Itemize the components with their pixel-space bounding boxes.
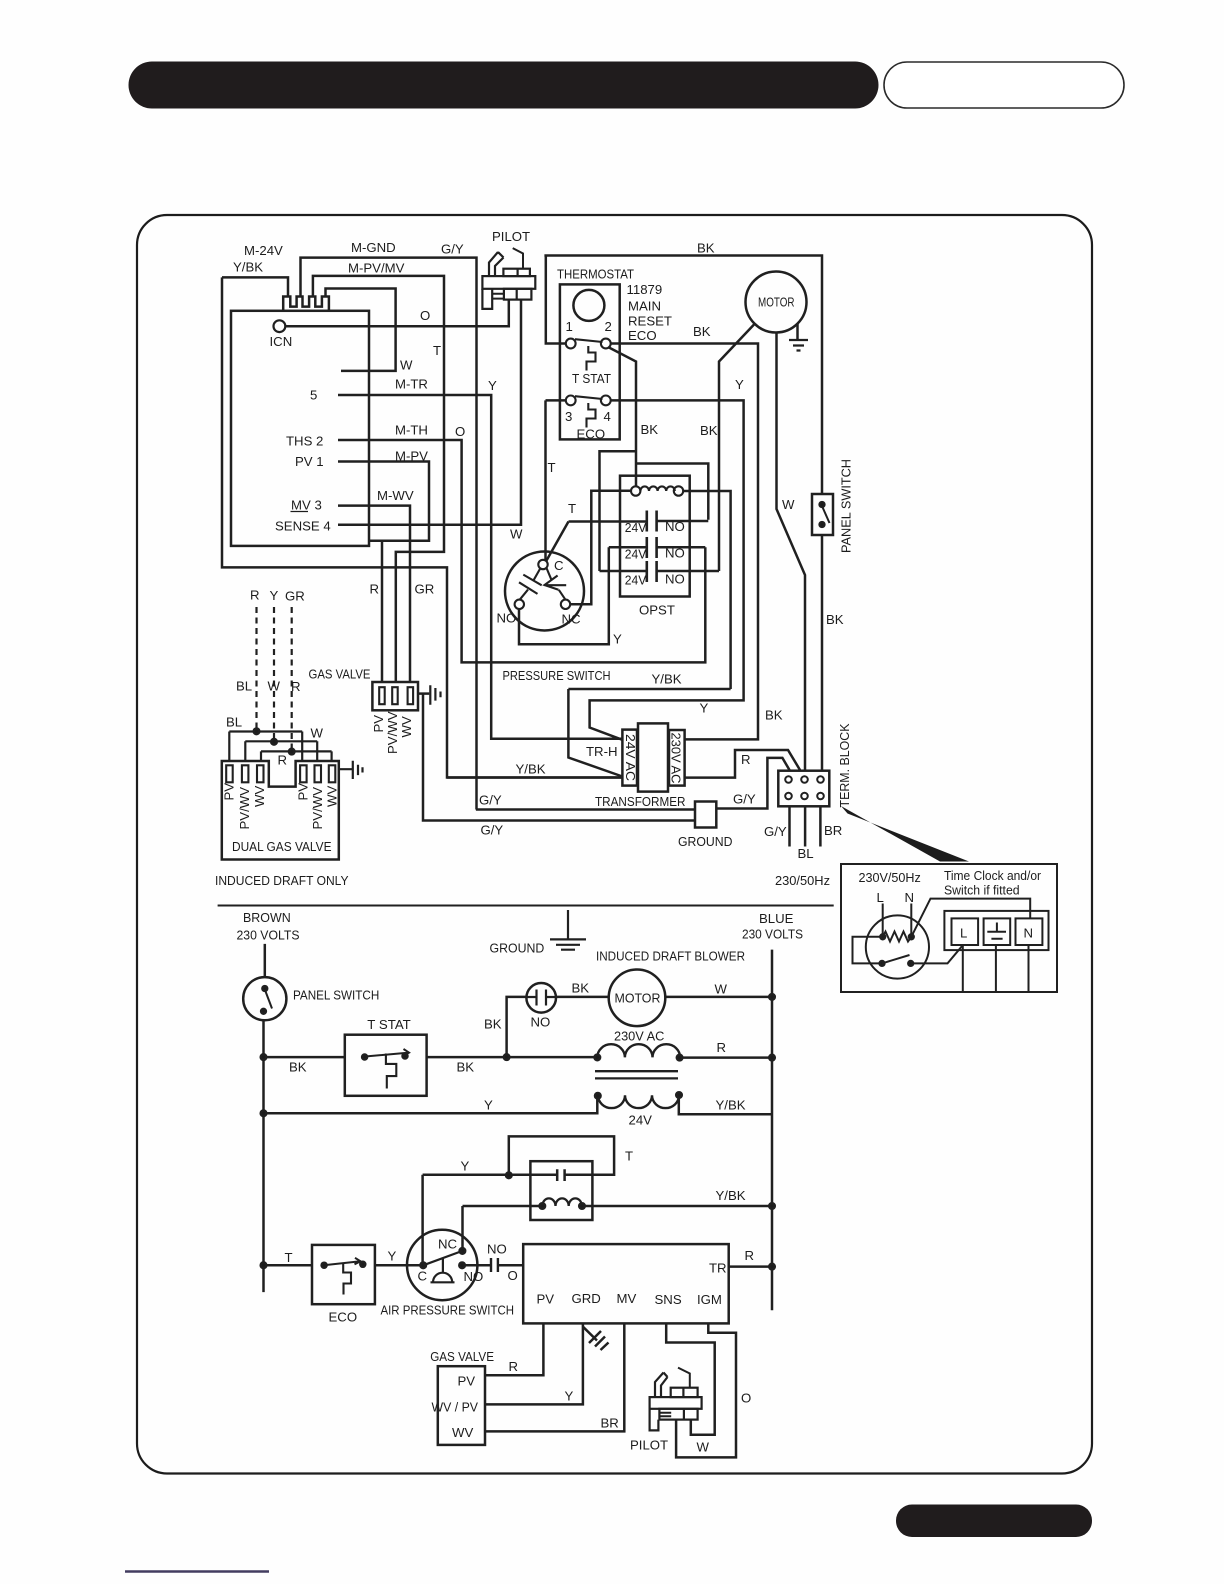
svg-text:TR: TR <box>709 1261 727 1276</box>
svg-text:Y: Y <box>565 1389 574 1404</box>
svg-text:BROWN: BROWN <box>243 910 291 925</box>
svg-text:230V/50Hz: 230V/50Hz <box>859 870 921 885</box>
svg-text:SNS: SNS <box>655 1292 682 1307</box>
svg-text:M-PV: M-PV <box>395 449 428 464</box>
svg-text:BK: BK <box>572 981 590 996</box>
svg-text:NC: NC <box>438 1237 458 1252</box>
svg-text:WV: WV <box>399 716 414 737</box>
svg-text:PV/WV: PV/WV <box>237 787 252 830</box>
svg-text:THERMOSTAT: THERMOSTAT <box>557 267 634 282</box>
svg-text:BK: BK <box>641 422 659 437</box>
svg-text:W: W <box>311 726 324 741</box>
svg-text:Time Clock and/or: Time Clock and/or <box>944 868 1042 883</box>
svg-text:Y: Y <box>700 701 709 716</box>
svg-text:PV: PV <box>222 783 237 801</box>
svg-text:RESET: RESET <box>628 314 672 329</box>
svg-text:INDUCED DRAFT ONLY: INDUCED DRAFT ONLY <box>215 873 349 888</box>
svg-text:2: 2 <box>605 319 612 334</box>
svg-text:GR: GR <box>285 589 305 604</box>
svg-text:ECO: ECO <box>577 427 606 442</box>
svg-text:NO: NO <box>464 1269 484 1284</box>
svg-text:SENSE 4: SENSE 4 <box>275 519 331 534</box>
svg-text:PV: PV <box>458 1374 476 1389</box>
svg-text:ECO: ECO <box>329 1310 358 1325</box>
svg-text:Y: Y <box>270 588 279 603</box>
svg-text:T: T <box>548 460 556 475</box>
svg-text:Y/BK: Y/BK <box>652 672 682 687</box>
svg-text:OPST: OPST <box>639 603 675 618</box>
svg-text:G/Y: G/Y <box>479 793 502 808</box>
svg-text:BK: BK <box>697 241 715 256</box>
svg-text:GROUND: GROUND <box>678 834 733 849</box>
svg-text:230V AC: 230V AC <box>669 733 684 784</box>
svg-text:Y/BK: Y/BK <box>716 1098 746 1113</box>
svg-text:BK: BK <box>457 1060 475 1075</box>
svg-text:Y/BK: Y/BK <box>716 1188 746 1203</box>
svg-text:NO: NO <box>487 1242 507 1257</box>
svg-text:24V: 24V <box>625 547 647 562</box>
svg-text:TERM. BLOCK: TERM. BLOCK <box>837 723 852 807</box>
svg-text:MV: MV <box>617 1291 637 1306</box>
svg-text:N: N <box>905 890 915 905</box>
svg-text:WV: WV <box>252 786 267 807</box>
svg-text:Y/BK: Y/BK <box>233 260 263 275</box>
svg-text:DUAL GAS VALVE: DUAL GAS VALVE <box>232 839 332 854</box>
svg-text:4: 4 <box>604 409 611 424</box>
svg-text:MOTOR: MOTOR <box>615 991 661 1006</box>
svg-text:M-PV/MV: M-PV/MV <box>348 261 405 276</box>
svg-text:24V: 24V <box>625 520 647 535</box>
svg-text:L: L <box>960 926 967 941</box>
svg-text:R: R <box>717 1040 727 1055</box>
svg-text:T: T <box>625 1149 633 1164</box>
svg-text:BK: BK <box>826 612 844 627</box>
svg-text:MOTOR: MOTOR <box>758 295 795 310</box>
svg-text:W: W <box>510 527 523 542</box>
svg-text:R: R <box>509 1359 519 1374</box>
svg-text:M-TH: M-TH <box>395 423 428 438</box>
svg-text:PRESSURE SWITCH: PRESSURE SWITCH <box>503 668 611 683</box>
svg-text:WV / PV: WV / PV <box>432 1400 479 1415</box>
svg-text:5: 5 <box>310 388 317 403</box>
svg-text:INDUCED DRAFT BLOWER: INDUCED DRAFT BLOWER <box>596 949 745 964</box>
svg-text:NO: NO <box>665 546 685 561</box>
svg-text:230/50Hz: 230/50Hz <box>775 873 830 888</box>
svg-text:ECO: ECO <box>628 328 657 343</box>
svg-text:PILOT: PILOT <box>492 229 530 244</box>
svg-text:230 VOLTS: 230 VOLTS <box>742 927 803 942</box>
svg-text:T STAT: T STAT <box>572 371 611 386</box>
svg-text:W: W <box>782 497 795 512</box>
svg-text:PV: PV <box>371 715 386 733</box>
svg-text:G/Y: G/Y <box>733 792 756 807</box>
svg-text:BK: BK <box>484 1017 502 1032</box>
svg-text:230 VOLTS: 230 VOLTS <box>237 928 300 943</box>
svg-text:R: R <box>278 753 288 768</box>
svg-text:NO: NO <box>665 519 685 534</box>
svg-text:R: R <box>370 582 380 597</box>
svg-text:TR-H: TR-H <box>586 744 618 759</box>
svg-text:BL: BL <box>798 846 814 861</box>
svg-text:WV: WV <box>325 786 340 807</box>
svg-text:Y: Y <box>735 377 744 392</box>
svg-text:O: O <box>741 1391 751 1406</box>
svg-text:M-WV: M-WV <box>377 488 414 503</box>
svg-text:O: O <box>455 424 465 439</box>
svg-text:GR: GR <box>415 582 435 597</box>
svg-text:Switch if fitted: Switch if fitted <box>944 883 1020 898</box>
svg-text:T: T <box>568 501 576 516</box>
svg-text:T: T <box>433 343 441 358</box>
svg-text:BLUE: BLUE <box>759 911 794 926</box>
svg-text:PANEL SWITCH: PANEL SWITCH <box>839 459 854 553</box>
svg-text:R: R <box>250 588 260 603</box>
svg-text:BR: BR <box>824 823 842 838</box>
svg-text:BK: BK <box>289 1060 307 1075</box>
svg-text:Y: Y <box>484 1098 493 1113</box>
svg-text:BL: BL <box>236 679 252 694</box>
svg-text:G/Y: G/Y <box>481 823 504 838</box>
svg-text:R: R <box>741 752 751 767</box>
svg-text:N: N <box>1024 926 1034 941</box>
svg-text:C: C <box>554 558 564 573</box>
svg-text:C: C <box>418 1269 428 1284</box>
svg-text:M-TR: M-TR <box>395 377 428 392</box>
svg-text:NO: NO <box>497 611 517 626</box>
svg-text:PV 1: PV 1 <box>295 454 324 469</box>
svg-text:AIR PRESSURE SWITCH: AIR PRESSURE SWITCH <box>381 1303 515 1318</box>
svg-text:R: R <box>745 1248 755 1263</box>
svg-text:Y: Y <box>388 1249 397 1264</box>
svg-text:GAS VALVE: GAS VALVE <box>430 1349 494 1364</box>
svg-text:IGM: IGM <box>697 1292 722 1307</box>
svg-text:T: T <box>285 1250 293 1265</box>
svg-text:G/Y: G/Y <box>441 242 464 257</box>
svg-text:Y: Y <box>488 378 497 393</box>
svg-text:NC: NC <box>562 612 582 627</box>
svg-text:W: W <box>400 358 413 373</box>
svg-text:NO: NO <box>531 1015 551 1030</box>
svg-text:W: W <box>268 679 281 694</box>
svg-text:MAIN: MAIN <box>628 299 661 314</box>
svg-text:NO: NO <box>665 572 685 587</box>
svg-text:W: W <box>715 982 728 997</box>
svg-text:BK: BK <box>700 423 718 438</box>
svg-text:R: R <box>291 679 301 694</box>
svg-text:Y: Y <box>461 1159 470 1174</box>
svg-text:11879: 11879 <box>627 282 663 297</box>
svg-text:GROUND: GROUND <box>490 941 545 956</box>
svg-text:O: O <box>508 1268 518 1283</box>
svg-text:PV/WV: PV/WV <box>385 711 400 754</box>
svg-text:THS 2: THS 2 <box>286 434 323 449</box>
svg-text:G/Y: G/Y <box>764 824 787 839</box>
svg-text:24V AC: 24V AC <box>623 734 638 781</box>
svg-text:L: L <box>877 890 884 905</box>
svg-text:Y: Y <box>613 632 622 647</box>
svg-text:ICN: ICN <box>270 334 293 349</box>
svg-text:230V AC: 230V AC <box>614 1029 665 1044</box>
svg-text:BL: BL <box>226 715 242 730</box>
svg-text:T STAT: T STAT <box>367 1017 411 1032</box>
svg-text:M-24V: M-24V <box>244 243 283 258</box>
svg-text:BK: BK <box>693 324 711 339</box>
svg-text:PV/WV: PV/WV <box>310 787 325 830</box>
svg-text:WV: WV <box>452 1425 473 1440</box>
svg-text:PV: PV <box>296 783 311 801</box>
svg-text:W: W <box>697 1440 710 1455</box>
svg-text:PV: PV <box>537 1292 555 1307</box>
svg-text:GAS VALVE: GAS VALVE <box>309 667 371 682</box>
svg-text:24V: 24V <box>629 1113 653 1128</box>
svg-text:PILOT: PILOT <box>630 1438 668 1453</box>
svg-text:Y/BK: Y/BK <box>516 762 546 777</box>
svg-text:24V: 24V <box>625 573 647 588</box>
svg-text:PANEL SWITCH: PANEL SWITCH <box>293 988 379 1003</box>
svg-text:TRANSFORMER: TRANSFORMER <box>595 794 686 809</box>
svg-text:O: O <box>420 308 430 323</box>
svg-text:BK: BK <box>765 708 783 723</box>
svg-text:1: 1 <box>566 319 573 334</box>
svg-text:3: 3 <box>565 409 572 424</box>
svg-text:BR: BR <box>601 1416 619 1431</box>
svg-text:GRD: GRD <box>572 1291 601 1306</box>
svg-text:M-GND: M-GND <box>351 240 396 255</box>
svg-text:MV 3: MV 3 <box>291 498 322 513</box>
